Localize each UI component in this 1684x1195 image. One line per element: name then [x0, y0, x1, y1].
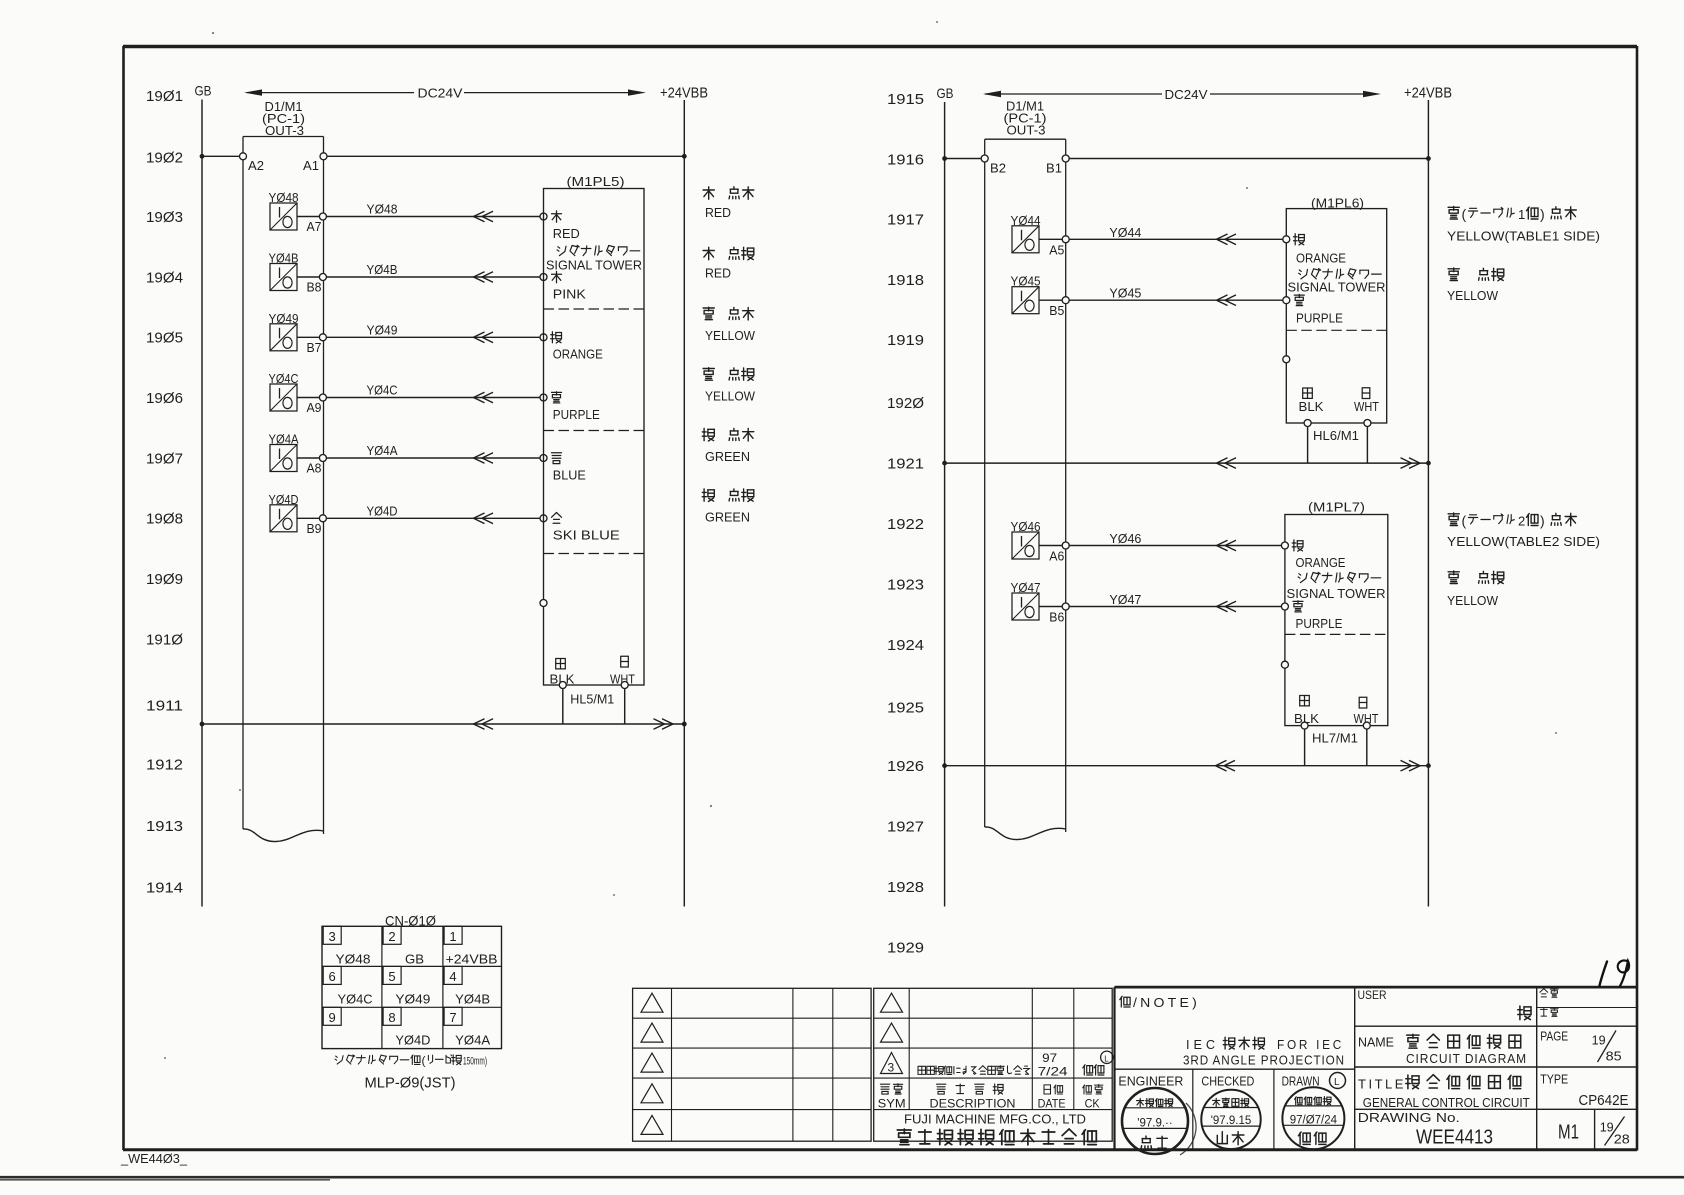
svg-text:FUJI MACHINE MFG.CO., LTD: FUJI MACHINE MFG.CO., LTD — [904, 1112, 1086, 1127]
pin A2 — [240, 153, 247, 160]
revision table (left blank) — [633, 988, 872, 1141]
M1PL7 pin 橙 — [1281, 542, 1288, 549]
svg-text:PAGE: PAGE — [1540, 1029, 1568, 1044]
svg-text:PURPLE: PURPLE — [1296, 616, 1343, 631]
M1PL5 label 黒 BLK — [556, 659, 566, 669]
revision mark triangle L1 — [641, 993, 663, 1012]
svg-text:CIRCUIT DIAGRAM: CIRCUIT DIAGRAM — [1406, 1051, 1527, 1066]
junction on GB rail at 1916 — [942, 156, 947, 161]
svg-text:9: 9 — [329, 1010, 336, 1025]
I/O output block YØ49 — [269, 311, 299, 351]
svg-text:GREEN: GREEN — [705, 509, 750, 524]
svg-text:192Ø: 192Ø — [887, 395, 924, 412]
svg-text:19Ø3: 19Ø3 — [146, 209, 183, 226]
+24VBB rail (right vertical bus) — [1427, 100, 1429, 907]
svg-text:RED: RED — [705, 205, 731, 220]
continuation arrow left on net 1911 — [474, 719, 485, 730]
wire 1916 GB to pin B2 — [945, 158, 982, 160]
svg-text:+24VBB: +24VBB — [660, 85, 708, 102]
svg-text:1: 1 — [449, 929, 456, 944]
standard note IEC規格機 FOR IEC — [1186, 1037, 1344, 1052]
svg-text:CK: CK — [1085, 1097, 1100, 1111]
svg-text:YØ4A: YØ4A — [367, 443, 398, 458]
M1PL7 spare pin — [1281, 661, 1288, 668]
M1PL5 section divider dashed 1 — [544, 308, 645, 310]
revision 3 CK 江坂 with stamp circle — [1083, 1051, 1113, 1075]
svg-text:5: 5 — [388, 969, 395, 984]
drawn circle-L mark — [1330, 1073, 1346, 1089]
I/O output block YØ47 — [1011, 580, 1041, 620]
svg-text:YØ44: YØ44 — [1109, 225, 1141, 240]
svg-text:ORANGE: ORANGE — [1296, 555, 1346, 570]
lamp state caption RED — [703, 187, 754, 220]
note label 注/NOTE) — [1120, 995, 1200, 1010]
svg-text:19Ø4: 19Ø4 — [146, 269, 183, 286]
header 訂正記録/DESCRIPTION — [930, 1084, 1016, 1111]
M1PL7 label 黒 BLK — [1300, 696, 1310, 706]
pin A5 — [1062, 236, 1069, 243]
svg-text:TITLE: TITLE — [1358, 1077, 1406, 1092]
svg-text:YØ4C: YØ4C — [367, 383, 398, 398]
svg-text:GB: GB — [195, 83, 212, 99]
wire M1PL7 BLK down to net 1926 — [1304, 729, 1306, 766]
checked stamp 山本 — [1201, 1090, 1260, 1149]
svg-text:DESCRIPTION: DESCRIPTION — [930, 1097, 1016, 1111]
M1PL5 text シグナルタワー — [558, 247, 560, 248]
wire YØ4B block to pin B8 — [297, 276, 320, 278]
I/O output block YØ44 — [1011, 213, 1041, 253]
svg-text:HL5/M1: HL5/M1 — [570, 692, 614, 707]
engineer stamp smear arc — [1180, 1103, 1196, 1155]
svg-text:MLP-Ø9(JST): MLP-Ø9(JST) — [365, 1075, 456, 1092]
svg-text:HL7/M1: HL7/M1 — [1312, 731, 1358, 746]
M1PL7 lead label 紫 PURPLE — [1293, 600, 1303, 602]
svg-text:TYPE: TYPE — [1540, 1072, 1568, 1087]
svg-text:YØ48: YØ48 — [336, 951, 371, 966]
wire 1902 pin A1 to +24VBB rail — [327, 155, 685, 157]
connector pin 2 cell — [383, 926, 424, 966]
svg-text:19Ø9: 19Ø9 — [146, 571, 183, 588]
svg-text:OUT-3: OUT-3 — [265, 123, 304, 138]
svg-text:1915: 1915 — [887, 91, 924, 108]
tower pin 青 BLUE — [540, 455, 547, 462]
wire 1902 GB to pin A2 — [202, 155, 240, 157]
wire 1916 pin B1 to +24VBB rail — [1069, 158, 1429, 160]
svg-text:'97.9.15: '97.9.15 — [1211, 1115, 1252, 1127]
pin A9 — [319, 394, 326, 401]
wire continuation arrow on YØ46 — [1217, 540, 1228, 551]
tower pin 紫 PURPLE — [540, 394, 547, 401]
svg-text:7: 7 — [449, 1010, 456, 1025]
signal tower M1PL6 box — [1286, 209, 1386, 423]
svg-text:1916: 1916 — [887, 151, 924, 168]
GB rail (right vertical bus) — [944, 102, 946, 907]
M1PL5 pin BLK — [559, 682, 566, 689]
pin A8 — [319, 455, 326, 462]
svg-text:YELLOW: YELLOW — [705, 388, 756, 403]
tower pin 赤 RED — [540, 213, 547, 220]
module OUT-3 box (right, open-bottom) — [985, 139, 1066, 832]
M1PL7 pin WHT — [1363, 722, 1370, 729]
svg-text:1923: 1923 — [887, 577, 924, 594]
header 記号/SYM — [878, 1084, 906, 1111]
svg-text:B5: B5 — [1049, 303, 1064, 318]
M1PL6 pin BLK — [1304, 420, 1311, 427]
I/O output block YØ4A — [269, 432, 299, 472]
tower lead label 赤 — [552, 213, 562, 215]
svg-text:YELLOW(TABLE2 SIDE): YELLOW(TABLE2 SIDE) — [1447, 534, 1600, 549]
module OUT-3 box (left, open-bottom) — [243, 137, 324, 835]
svg-text:1924: 1924 — [887, 637, 924, 654]
svg-text:19Ø7: 19Ø7 — [146, 450, 183, 467]
junction on +24VBB rail at 1916 — [1426, 156, 1431, 161]
connector pin 3 cell — [323, 926, 370, 966]
svg-text:DATE: DATE — [1038, 1097, 1066, 1111]
M1PL6 pin 紫 — [1283, 297, 1290, 304]
svg-text:1: 1 — [1518, 207, 1525, 222]
svg-text:A8: A8 — [307, 461, 322, 476]
svg-text:1913: 1913 — [146, 818, 183, 835]
M1PL5 section divider dashed 2 — [544, 430, 645, 432]
label 分番 — [1540, 989, 1544, 993]
connector pin 4 cell — [444, 966, 490, 1006]
svg-text:'97.9.··: '97.9.·· — [1137, 1117, 1172, 1129]
junction +24VBB rail at 1921 — [1426, 461, 1431, 466]
svg-text:(: ( — [1462, 513, 1467, 529]
svg-text:19: 19 — [1592, 1033, 1606, 1048]
svg-text:1926: 1926 — [887, 758, 924, 775]
svg-text:HL6/M1: HL6/M1 — [1313, 428, 1359, 443]
wire YØ48 to signal tower M1PL5 — [326, 216, 540, 218]
wire YØ44 block to pin A5 — [1039, 238, 1063, 240]
M1PL7 lead label 橙 ORANGE — [1293, 540, 1295, 551]
svg-text:(: ( — [1462, 206, 1467, 222]
revision mark triangle 3 — [881, 1053, 903, 1075]
header 担当/CK — [1083, 1085, 1103, 1111]
svg-text:SIGNAL TOWER: SIGNAL TOWER — [1288, 279, 1386, 294]
svg-text:1912: 1912 — [146, 756, 183, 773]
M1PL6 label 白 WHT — [1362, 388, 1370, 399]
title block note area frame — [1115, 987, 1638, 1150]
svg-text:1925: 1925 — [887, 699, 924, 716]
junction GB rail at 1926 — [942, 763, 947, 768]
M1PL7 label 白 WHT — [1359, 697, 1367, 708]
I/O output block YØ4B — [269, 251, 299, 291]
M1PL6 spare pin — [1283, 356, 1290, 363]
wire continuation arrow on YØ49 — [474, 332, 485, 343]
svg-text:RED: RED — [553, 226, 580, 241]
drawing name 電気回路線図 — [1407, 1034, 1419, 1036]
svg-text:YELLOW(TABLE1 SIDE): YELLOW(TABLE1 SIDE) — [1447, 229, 1600, 244]
wire YØ46 to signal tower M1PL7 — [1069, 545, 1282, 547]
svg-text:L: L — [1334, 1077, 1340, 1088]
GB rail (left vertical bus) — [201, 100, 203, 907]
I/O output block YØ48 — [269, 190, 299, 230]
svg-text:GREEN: GREEN — [705, 449, 750, 464]
wire continuation arrow on YØ4C — [474, 392, 485, 403]
net 1926 horizontal wire — [945, 765, 1429, 767]
svg-text:WHT: WHT — [1354, 399, 1379, 414]
svg-text:1918: 1918 — [887, 272, 924, 289]
pin B9 — [319, 515, 326, 522]
svg-text:3: 3 — [888, 1061, 895, 1075]
svg-text:YØ49: YØ49 — [367, 322, 398, 337]
svg-text:3: 3 — [329, 929, 336, 944]
svg-text:ENGINEER: ENGINEER — [1118, 1074, 1183, 1089]
revision mark triangle R2 — [881, 1023, 903, 1042]
net 1911 horizontal wire — [202, 723, 684, 725]
svg-text:+24VBB: +24VBB — [446, 951, 498, 966]
pin B2 — [981, 155, 988, 162]
svg-text:YØ4C: YØ4C — [338, 991, 373, 1006]
svg-text:B9: B9 — [307, 521, 322, 536]
continuation arrow left on net 1921 — [1217, 458, 1228, 469]
junction on +24VBB rail at 1902 — [682, 154, 687, 159]
svg-text:GB: GB — [405, 951, 424, 966]
svg-text:FOR IEC: FOR IEC — [1277, 1037, 1344, 1052]
pin A1 — [320, 153, 327, 160]
M1PL6 text シグナルタワー — [1299, 270, 1301, 271]
pin B1 — [1062, 155, 1069, 162]
svg-text:ORANGE: ORANGE — [553, 347, 603, 362]
wire YØ44 to signal tower M1PL6 — [1069, 238, 1283, 240]
junction on GB rail at 1902 — [200, 154, 205, 159]
svg-text:(: ( — [422, 1054, 426, 1068]
svg-text:YØ45: YØ45 — [1109, 286, 1141, 301]
revision mark triangle L4 — [641, 1084, 663, 1103]
sheet fraction 19/28 — [1600, 1117, 1630, 1147]
lamp caption 黄 点滅 YELLOW (M1PL6) — [1447, 268, 1504, 303]
svg-text:PURPLE: PURPLE — [553, 407, 600, 422]
svg-text:USER: USER — [1358, 990, 1387, 1002]
svg-text:1927: 1927 — [887, 819, 924, 836]
svg-text:19Ø1: 19Ø1 — [146, 88, 183, 105]
svg-text:RED: RED — [705, 266, 731, 281]
svg-text:2: 2 — [1518, 514, 1525, 529]
I/O output block YØ4D — [269, 492, 299, 532]
lamp state caption YELLOW — [703, 307, 756, 343]
wire YØ4C block to pin A9 — [297, 397, 320, 399]
svg-text:B7: B7 — [307, 340, 322, 355]
drawing title 総合制御回路 — [1407, 1075, 1409, 1089]
svg-text:YELLOW: YELLOW — [1447, 593, 1499, 608]
junction GB rail at 1921 — [942, 461, 947, 466]
svg-text:A9: A9 — [307, 400, 322, 415]
wire M1PL7 WHT down to net 1926 — [1366, 729, 1368, 766]
svg-text:1919: 1919 — [887, 332, 924, 349]
I/O output block YØ45 — [1011, 274, 1041, 314]
svg-text:B8: B8 — [307, 280, 322, 295]
svg-text:+24VBB: +24VBB — [1404, 85, 1452, 102]
title block right column frame — [1355, 987, 1637, 1150]
junction +24VBB rail at 1926 — [1426, 763, 1431, 768]
M1PL5 label 白 WHT — [621, 656, 629, 667]
wire YØ4A block to pin A8 — [297, 457, 320, 459]
svg-text:1911: 1911 — [146, 697, 183, 714]
wire continuation arrow on YØ48 — [474, 211, 485, 222]
+24VBB rail (left vertical bus) — [683, 100, 685, 907]
svg-text:OUT-3: OUT-3 — [1007, 123, 1046, 138]
approval row divider lines — [1115, 1069, 1355, 1150]
svg-text:150mm): 150mm) — [463, 1056, 487, 1068]
tower lead label 青 — [552, 452, 562, 454]
break symbol at module bottom (right) — [985, 827, 1066, 840]
wire continuation arrow on YØ45 — [1217, 295, 1228, 306]
wire YØ45 to signal tower M1PL6 — [1069, 299, 1283, 301]
wire continuation arrow on YØ4A — [474, 453, 485, 464]
tower lead label 紫 — [552, 391, 562, 393]
M1PL6 pin 橙 — [1283, 236, 1290, 243]
revision 3 date 97 7/24 — [1038, 1051, 1068, 1078]
M1PL7 pin BLK — [1301, 722, 1308, 729]
svg-text:SIGNAL TOWER: SIGNAL TOWER — [546, 257, 642, 272]
pin A6 — [1062, 542, 1069, 549]
tower pin 橙 ORANGE — [540, 334, 547, 341]
svg-text:B1: B1 — [1046, 161, 1062, 176]
engineer stamp 足立 — [1122, 1088, 1188, 1154]
M1PL7 pin 紫 — [1281, 603, 1288, 610]
svg-text:BLK: BLK — [1299, 399, 1324, 414]
wire continuation arrow on YØ47 — [1217, 601, 1228, 612]
wire WHT down to net 1911 — [624, 688, 626, 724]
page fraction 19/85 — [1592, 1031, 1622, 1064]
tower lead label 空 — [552, 513, 557, 518]
svg-text:DRAWING No.: DRAWING No. — [1358, 1110, 1460, 1125]
junction +24VBB rail at 1911 — [682, 722, 687, 727]
svg-text:YELLOW: YELLOW — [1447, 288, 1499, 303]
connector caption シグナルタワー側(リード線150mm) — [335, 1054, 487, 1068]
wire BLK down to net 1911 — [562, 688, 564, 724]
wire YØ49 block to pin B7 — [297, 336, 320, 338]
connector pin 9 cell — [323, 1007, 341, 1025]
svg-text:WEE4413: WEE4413 — [1416, 1126, 1493, 1148]
revision 3 description 図面整備による全面差し替え — [918, 1066, 926, 1074]
connector pin 5 cell — [383, 966, 430, 1006]
drawn stamp 江坂 — [1282, 1087, 1344, 1149]
svg-text:85: 85 — [1606, 1049, 1622, 1064]
svg-text:M1: M1 — [1558, 1122, 1579, 1144]
M1PL6 section divider dashed — [1286, 329, 1386, 331]
pin B6 — [1062, 603, 1069, 610]
svg-text:): ) — [1540, 513, 1545, 529]
company name 富士機械製造株式会社 — [897, 1129, 911, 1131]
lamp state caption YELLOW — [703, 368, 756, 404]
continuation arrow right on net 1926 — [1409, 760, 1420, 771]
signal tower M1PL5 box — [544, 189, 645, 686]
svg-text:19Ø5: 19Ø5 — [146, 330, 183, 347]
module label D1/M1 (PC-1) OUT-3 (left) — [262, 99, 305, 138]
wire YØ49 to signal tower M1PL5 — [326, 336, 540, 338]
svg-text:YØ4D: YØ4D — [367, 503, 398, 518]
svg-text:A7: A7 — [307, 219, 322, 234]
svg-text:19Ø2: 19Ø2 — [146, 149, 183, 166]
svg-text:YØ48: YØ48 — [367, 202, 398, 217]
svg-text:YELLOW: YELLOW — [705, 328, 756, 343]
pin A7 — [319, 213, 326, 220]
connector pin 7 cell — [444, 1007, 490, 1047]
svg-text:19Ø8: 19Ø8 — [146, 511, 183, 528]
svg-text:1921: 1921 — [887, 455, 924, 472]
M1PL5 spare pin — [540, 600, 547, 607]
svg-text:IEC: IEC — [1186, 1037, 1219, 1052]
revision mark triangle L3 — [641, 1053, 663, 1072]
svg-text:DC24V: DC24V — [418, 86, 463, 101]
continuation arrow right on net 1921 — [1409, 458, 1420, 469]
svg-text:A6: A6 — [1049, 549, 1064, 564]
svg-text:): ) — [1540, 206, 1545, 222]
svg-text:1917: 1917 — [887, 212, 924, 229]
svg-text:DC24V: DC24V — [1165, 87, 1208, 102]
svg-text:PINK: PINK — [553, 286, 586, 301]
svg-text:DRAWN: DRAWN — [1282, 1074, 1320, 1089]
svg-text:/NOTE): /NOTE) — [1133, 995, 1200, 1010]
svg-text:19: 19 — [1600, 1119, 1614, 1134]
wire M1PL6 BLK down to net 1921 — [1307, 426, 1309, 463]
svg-text:191Ø: 191Ø — [146, 631, 183, 648]
wire YØ4C to signal tower M1PL5 — [326, 397, 540, 399]
M1PL7 section divider dashed — [1285, 633, 1388, 635]
svg-text:1914: 1914 — [146, 879, 183, 896]
connector CN-010 pin table — [322, 926, 502, 1048]
net 1921 horizontal wire — [945, 462, 1429, 464]
svg-text:28: 28 — [1614, 1132, 1630, 1147]
svg-text:YØ4B: YØ4B — [455, 991, 490, 1006]
svg-text:19Ø6: 19Ø6 — [146, 390, 183, 407]
svg-text:GENERAL CONTROL CIRCUIT: GENERAL CONTROL CIRCUIT — [1363, 1095, 1530, 1110]
revision record table (SYM/DESCRIPTION/DATE/CK) — [874, 988, 1112, 1141]
svg-text:2: 2 — [388, 929, 395, 944]
lamp state caption GREEN — [702, 429, 754, 464]
wire YØ4D to signal tower M1PL5 — [326, 517, 540, 519]
svg-text:NAME: NAME — [1358, 1035, 1394, 1050]
M1PL6 label 黒 BLK — [1303, 388, 1313, 398]
svg-text:8: 8 — [388, 1010, 395, 1025]
svg-text:1928: 1928 — [887, 879, 924, 896]
svg-text:SIGNAL TOWER: SIGNAL TOWER — [1287, 586, 1386, 601]
svg-text:1929: 1929 — [887, 940, 924, 957]
wire YØ47 to signal tower M1PL7 — [1069, 606, 1282, 608]
svg-text:A1: A1 — [303, 158, 319, 173]
svg-text:PURPLE: PURPLE — [1296, 310, 1343, 325]
module label D1/M1 (PC-1) OUT-3 (right) — [1004, 99, 1047, 138]
svg-text:97/Ø7/24: 97/Ø7/24 — [1290, 1114, 1338, 1126]
pin B8 — [319, 274, 326, 281]
connector pin 8 cell — [383, 1007, 430, 1047]
connector pin 1 cell — [444, 926, 497, 966]
lamp caption 黄 点滅 YELLOW (M1PL7) — [1447, 571, 1504, 608]
svg-text:B6: B6 — [1049, 610, 1064, 625]
svg-text:YØ49: YØ49 — [395, 991, 430, 1006]
lamp state caption GREEN — [702, 489, 754, 524]
svg-text:ORANGE: ORANGE — [1296, 250, 1346, 265]
I/O output block YØ4C — [269, 371, 299, 411]
continuation arrow right on net 1911 — [662, 719, 673, 730]
svg-text:YØ4B: YØ4B — [367, 262, 398, 277]
M1PL6 lead label 紫 PURPLE — [1294, 294, 1304, 296]
lamp state caption RED — [703, 247, 754, 280]
svg-text:7/24: 7/24 — [1038, 1064, 1068, 1078]
connector pin 6 cell — [323, 966, 372, 1006]
svg-text:SKI BLUE: SKI BLUE — [553, 528, 620, 543]
wire continuation arrow on YØ4B — [474, 272, 485, 283]
M1PL6 pin WHT — [1364, 420, 1371, 427]
M1PL5 section divider dashed 3 — [544, 553, 645, 555]
svg-text:YØ4A: YØ4A — [455, 1032, 490, 1047]
M1PL5 pin WHT — [621, 682, 628, 689]
svg-text:(M1PL7): (M1PL7) — [1308, 500, 1365, 515]
signal tower M1PL7 box — [1285, 515, 1388, 726]
break symbol at module bottom (left) — [243, 829, 324, 842]
